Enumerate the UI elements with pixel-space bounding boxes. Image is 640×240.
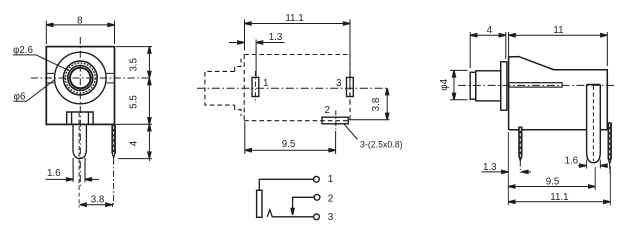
barrel tip	[470, 72, 476, 99]
extension square top to dim	[116, 46, 152, 48]
slot	[509, 83, 562, 87]
dim 9.5 line	[245, 149, 336, 151]
svg-text:9.5: 9.5	[282, 139, 296, 150]
dim 4 line	[470, 34, 506, 36]
svg-text:1.6: 1.6	[47, 168, 61, 179]
svg-text:4: 4	[487, 25, 493, 36]
edge notch right	[107, 73, 115, 83]
dim 11.1 line	[245, 23, 351, 25]
svg-text:φ4: φ4	[439, 78, 450, 90]
svg-text:11.1: 11.1	[550, 192, 568, 203]
right vertical dim line	[148, 46, 150, 161]
svg-text:1.6: 1.6	[565, 156, 579, 167]
outer circle phi6	[55, 52, 107, 104]
wire to terminal 1	[259, 179, 313, 190]
svg-text:3.8: 3.8	[91, 195, 105, 206]
terminal 1	[314, 176, 320, 182]
terminal 2	[314, 194, 320, 200]
dim 1.3 extension	[255, 40, 257, 78]
bushing ring outer circle	[63, 61, 97, 95]
right pin	[112, 124, 116, 158]
dim phi4 extensions	[450, 70, 468, 99]
flange	[501, 62, 507, 110]
bushing dotted circle	[65, 63, 95, 93]
pin 2 centerline extension to 3.8 dim	[349, 119, 390, 121]
dim 1.3 extension	[507, 132, 509, 205]
dim 11.1 (right view) extension	[609, 166, 611, 206]
svg-text:3.5: 3.5	[128, 57, 139, 71]
center pin centerline	[78, 113, 80, 186]
svg-text:4: 4	[128, 140, 139, 146]
svg-text:3-(2.5x0.8): 3-(2.5x0.8)	[360, 139, 403, 149]
center pin tube	[587, 85, 601, 163]
svg-text:11.1: 11.1	[285, 13, 303, 24]
center pin tube centerline	[592, 86, 594, 161]
pin 2	[322, 117, 348, 124]
svg-text:3: 3	[336, 78, 342, 89]
pin 1 centerline	[254, 71, 256, 103]
wire terminal 2 with switch arrow	[293, 197, 314, 211]
dim 8 line	[46, 24, 114, 26]
dim 9.5 (middle) extensions	[245, 122, 336, 154]
svg-text:3.8: 3.8	[371, 97, 382, 111]
hidden bottom edge	[244, 120, 350, 122]
vertical center line	[79, 37, 81, 188]
extension square bottom to dim	[116, 123, 152, 125]
dim 11 line	[509, 34, 608, 36]
dim phi4 line	[453, 70, 455, 99]
dim 3.8 (middle) line	[386, 88, 388, 120]
svg-text:1: 1	[263, 78, 268, 89]
left pin centerline	[519, 162, 521, 174]
svg-text:5.5: 5.5	[128, 95, 139, 109]
middle center line	[197, 87, 390, 89]
barrel	[476, 71, 501, 101]
svg-text:1.3: 1.3	[269, 32, 283, 43]
boss block	[67, 112, 93, 124]
svg-text:11: 11	[553, 25, 563, 36]
svg-text:2: 2	[325, 105, 330, 116]
dim 11 (top) extension right	[509, 32, 608, 66]
dim 11.1 extensions	[245, 20, 351, 78]
edge notch left	[46, 73, 54, 83]
svg-text:1: 1	[328, 174, 334, 185]
dim 8 extension lines	[46, 21, 114, 45]
left view body square	[46, 47, 114, 125]
dim 1.3 arrows	[229, 42, 285, 44]
left pin (right view)	[519, 127, 522, 162]
right pin centerline below	[113, 159, 115, 206]
pin 1	[252, 77, 259, 96]
pin 3 centerline	[349, 71, 351, 103]
hidden flange	[235, 59, 241, 117]
right pin (right view)	[608, 122, 611, 164]
inner circle phi2.6	[70, 68, 91, 89]
hidden body outline	[244, 55, 350, 121]
right view center line	[458, 84, 616, 86]
center pin tail	[73, 158, 85, 182]
jack sleeve bar	[257, 190, 262, 217]
pin 3	[347, 77, 354, 96]
hidden barrel	[205, 71, 235, 105]
label 3-(2.5x0.8) leader	[344, 124, 358, 140]
terminal 3	[314, 214, 320, 220]
dim 11.1 line	[508, 201, 610, 203]
svg-text:3: 3	[328, 212, 334, 223]
svg-text:9.5: 9.5	[546, 177, 560, 188]
dim 4 (top) extensions	[470, 32, 506, 68]
svg-text:8: 8	[77, 15, 83, 26]
dim 9.5 line	[508, 186, 595, 188]
tip contact wire with notch	[267, 210, 313, 217]
svg-text:1.3: 1.3	[483, 162, 497, 173]
body	[509, 57, 608, 130]
right pin centerline	[609, 165, 611, 174]
right pin white dashes	[113, 126, 115, 156]
horizontal center line	[31, 77, 149, 79]
center pin	[72, 112, 89, 159]
dim 9.5 (right view) extension	[594, 167, 596, 190]
svg-text:2: 2	[328, 194, 334, 205]
extension pin tip to dim	[118, 158, 152, 160]
bushing ring inner circle	[68, 66, 93, 91]
